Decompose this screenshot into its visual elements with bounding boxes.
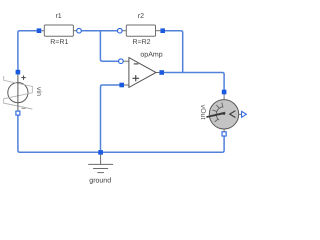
- voltage sensor vOut: [206, 94, 241, 131]
- vOut V unit letter: [230, 111, 236, 118]
- r1 negative pin: [77, 28, 82, 33]
- vin plus sign: [21, 75, 26, 80]
- wire opAmp.in_p to ground node: [101, 85, 122, 152]
- opAmp non-inverting input pin: [119, 83, 124, 88]
- vin negative pin: [16, 111, 20, 115]
- svg-text:r2: r2: [138, 13, 144, 20]
- svg-text:r1: r1: [55, 13, 61, 20]
- ground: [88, 155, 113, 173]
- op-amp opAmp: [124, 58, 160, 88]
- wire vin.n to ground node: [18, 113, 101, 152]
- ground node junction: [98, 150, 103, 155]
- svg-text:vOut: vOut: [199, 105, 206, 120]
- wire r2.n to opAmp.out feedback: [163, 31, 183, 73]
- vin minus sign: [22, 107, 26, 109]
- vin positive pin: [16, 70, 21, 75]
- r2 negative pin: [118, 28, 123, 33]
- svg-text:R=R2: R=R2: [132, 39, 150, 46]
- r1 positive pin: [37, 28, 42, 33]
- svg-text:vin: vin: [35, 87, 43, 96]
- svg-text:ground: ground: [89, 177, 111, 185]
- r2 positive pin: [160, 28, 165, 33]
- opAmp output pin: [159, 70, 164, 75]
- resistor r2: [122, 25, 160, 36]
- opAmp inverting input pin: [119, 59, 124, 64]
- vOut negative pin: [222, 132, 226, 136]
- wire r1.n to r2.p: [79, 30, 120, 32]
- resistor r1: [41, 25, 76, 36]
- wire opAmp.out to vOut.p: [162, 73, 224, 93]
- vOut positive pin: [222, 90, 227, 95]
- wire vOut.n to ground node: [101, 134, 225, 152]
- vOut signal output connector: [242, 111, 247, 117]
- svg-text:R=R1: R=R1: [50, 39, 68, 46]
- svg-text:opAmp: opAmp: [140, 52, 162, 59]
- wire vin.p to r1.p: [18, 31, 39, 72]
- voltage source vin: [4, 72, 33, 113]
- wire node n1 to opAmp.in_n: [100, 31, 119, 62]
